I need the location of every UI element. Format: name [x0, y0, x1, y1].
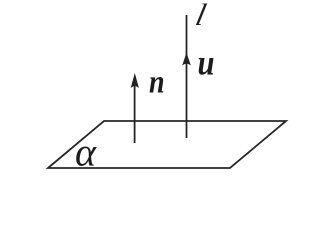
svg-text:l: l	[193, 0, 210, 32]
line l	[186, 15, 188, 138]
vector n shaft	[134, 80, 136, 143]
plane alpha (parallelogram)	[48, 121, 286, 168]
svg-text:n: n	[149, 63, 165, 100]
vector n arrowhead	[131, 73, 139, 88]
svg-text:α: α	[75, 130, 97, 175]
vector u arrowhead	[182, 53, 191, 66]
svg-text:u: u	[198, 43, 215, 83]
